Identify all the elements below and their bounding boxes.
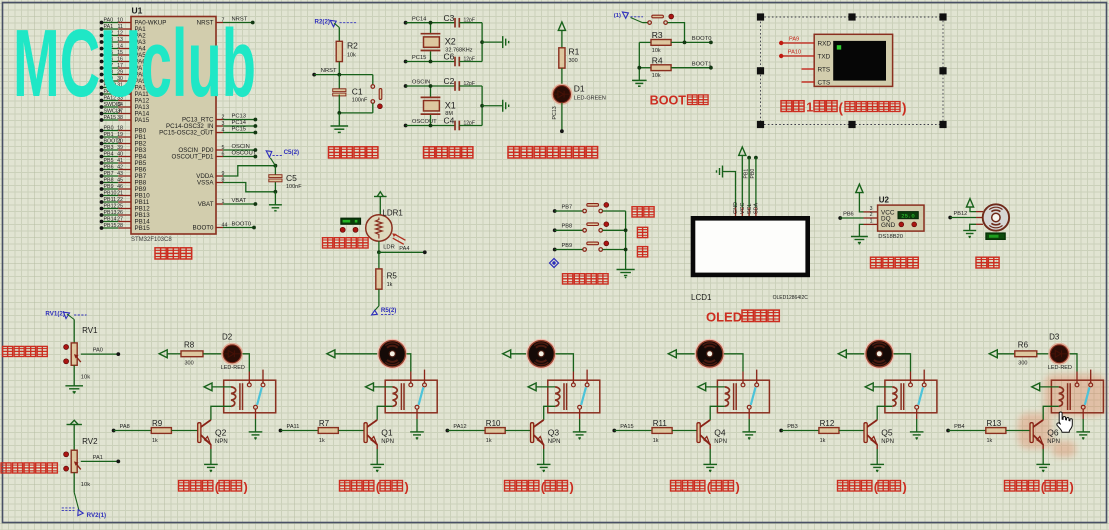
lcd LCD1 OLED12864I2C [735, 208, 737, 217]
svg-text:LDR1: LDR1 [382, 209, 403, 218]
svg-text:R3: R3 [652, 30, 663, 40]
svg-text:R13: R13 [987, 419, 1002, 428]
svg-text:U2: U2 [879, 195, 890, 204]
svg-text:PB13: PB13 [104, 210, 117, 216]
label 舵机 [976, 257, 999, 268]
svg-text:PB7: PB7 [104, 171, 114, 177]
svg-text:PB10: PB10 [104, 190, 117, 196]
servo display [986, 233, 1005, 239]
label 加 [637, 227, 647, 237]
wire button bus [625, 211, 627, 270]
wire arrow to motor Q3 [511, 353, 527, 355]
wire RV1 wiper to PA0 [81, 353, 119, 355]
node PA15 [612, 429, 616, 433]
svg-text:SCL: SCL [747, 204, 753, 215]
wire PA12 to R10 [447, 430, 485, 432]
svg-text:41: 41 [117, 158, 123, 164]
svg-text:VSSA: VSSA [197, 180, 214, 187]
svg-text:25: 25 [117, 203, 123, 209]
wire right pin OSCOUT_PD1 [216, 156, 223, 158]
wire coil bottom to collector [211, 406, 231, 420]
svg-text:R11: R11 [653, 419, 668, 428]
svg-text:OSCIN: OSCIN [232, 144, 250, 150]
wire R2 to NRST node [338, 62, 340, 75]
wire PB12 to servo [950, 217, 976, 219]
capacitor C4 [455, 121, 459, 131]
svg-text:PB15: PB15 [135, 225, 151, 232]
svg-text:): ) [244, 480, 248, 495]
ground relay contact [916, 419, 918, 432]
svg-text:(1): (1) [614, 13, 621, 19]
svg-text:10k: 10k [81, 375, 90, 381]
label 浑浊度调节 [1, 463, 57, 473]
svg-text:R5: R5 [387, 272, 398, 281]
wire C1 bottom [339, 112, 373, 114]
svg-text:300: 300 [185, 361, 194, 367]
ground crystal [482, 105, 503, 107]
wire PA8 to R9 [114, 430, 152, 432]
probe label C5(2) [266, 151, 272, 157]
wire RV2 bottom [73, 473, 75, 493]
label 继电器(充氧) [838, 481, 872, 492]
ground Q5 emitter [876, 444, 878, 449]
svg-text:NRST: NRST [321, 68, 337, 74]
svg-text:PB12: PB12 [104, 203, 117, 209]
ds18b20 display [898, 212, 918, 219]
svg-text:): ) [902, 101, 907, 116]
ground Q1 emitter [376, 444, 378, 449]
node PB9 [553, 248, 557, 252]
svg-text:LCD1: LCD1 [691, 293, 712, 302]
label 复位电路 [329, 147, 378, 158]
svg-text:3: 3 [870, 206, 873, 212]
svg-text:PA15: PA15 [135, 117, 150, 124]
power arrow U2 [856, 184, 863, 192]
svg-text:PB6: PB6 [104, 164, 114, 170]
svg-text:10k: 10k [652, 48, 661, 54]
wire left pin PB11 [102, 201, 119, 203]
svg-text:21: 21 [117, 190, 123, 196]
power arrow relay coil [1032, 383, 1040, 391]
svg-text:8M: 8M [445, 111, 453, 117]
svg-text:NPN: NPN [215, 439, 228, 445]
ldr LDR1 [379, 197, 381, 216]
resistor R5 [378, 252, 380, 269]
wire D1 to PC13 [561, 103, 563, 131]
selection highlight relay Q6 [1018, 374, 1106, 457]
power bar LDR [374, 192, 387, 197]
potentiometer RV1 [71, 343, 77, 365]
wire left pin PB0 [102, 130, 119, 132]
svg-text:PB1: PB1 [104, 132, 114, 138]
wire left pin PA12 [102, 100, 119, 102]
svg-text:10k: 10k [652, 73, 661, 79]
ground crystal [482, 41, 503, 43]
svg-text:1k: 1k [319, 438, 325, 444]
svg-text:C5: C5 [286, 173, 297, 183]
svg-text:C5(2): C5(2) [284, 149, 299, 156]
svg-text:VBAT: VBAT [232, 198, 247, 204]
wire OLED SDA [754, 156, 758, 160]
wire motor to relay [555, 354, 573, 372]
wire R6 to D3 [1037, 353, 1050, 355]
svg-text:Q3: Q3 [548, 428, 560, 438]
wire right pin PC14-OSC32_IN [216, 125, 223, 127]
ground relay contact [579, 419, 581, 432]
node PA8 [112, 429, 116, 433]
svg-text:PB5: PB5 [104, 158, 114, 164]
wire VDDA to C5 [223, 166, 275, 176]
svg-text:PB4: PB4 [104, 151, 114, 157]
svg-text:RV1(2): RV1(2) [45, 311, 65, 318]
label 主芯片 [155, 248, 192, 259]
wire right pin NRST [216, 22, 223, 24]
wire OSCOUT row [406, 125, 455, 127]
transistor Q2 NPN [198, 423, 201, 443]
wire right pin PC15-OSC32_OUT [216, 132, 223, 134]
svg-text:PA8: PA8 [120, 424, 130, 430]
wire OSCIN row [406, 85, 455, 87]
power arrow servo [966, 199, 973, 207]
node PB7 [553, 209, 557, 213]
svg-text:100nF: 100nF [286, 184, 302, 190]
svg-text:PA1: PA1 [93, 455, 103, 461]
wire PB4 to R13 [948, 430, 986, 432]
svg-text:DS18B20: DS18B20 [878, 234, 903, 240]
wire left pin PA3 [102, 41, 119, 43]
svg-text:PA10: PA10 [788, 50, 801, 56]
mouse cursor hand [1057, 412, 1072, 432]
label 独立按键 [563, 274, 609, 284]
probe label R5(2) [378, 289, 380, 306]
svg-text:RTS: RTS [818, 66, 831, 73]
svg-text:PB9: PB9 [562, 243, 573, 249]
node PA12 [446, 429, 450, 433]
relay Q3 [548, 380, 600, 413]
svg-text:GND: GND [881, 222, 896, 229]
svg-text:46: 46 [117, 184, 123, 190]
ldr value display [341, 218, 361, 224]
label 继电器(制冷) [340, 481, 374, 492]
wire R10 to Q3 base [505, 430, 530, 432]
svg-text:1: 1 [806, 101, 813, 115]
svg-text:PA4: PA4 [399, 246, 409, 252]
wire right pin VBAT [216, 203, 223, 205]
ground Q3 emitter [543, 444, 545, 449]
label 继电器(补光) [1005, 481, 1039, 492]
svg-text:CTS: CTS [818, 79, 831, 86]
op-amp U1 [131, 17, 216, 235]
label 光照调节 [323, 238, 369, 248]
wire OLED GND [723, 172, 736, 208]
wire left pin PA7 [102, 67, 119, 69]
wire right pin VSSA [216, 182, 223, 184]
svg-text:BOOT1: BOOT1 [692, 61, 712, 67]
svg-text:RV2(1): RV2(1) [87, 512, 107, 519]
node BOOT0 [683, 41, 687, 45]
selection box serial window [761, 17, 944, 125]
svg-text:PC15-OSC32_OUT: PC15-OSC32_OUT [159, 130, 214, 137]
svg-text:1k: 1k [152, 438, 158, 444]
label 测温模块 [871, 257, 919, 268]
svg-text:RXD: RXD [818, 40, 832, 47]
power arrow relay coil [865, 383, 873, 391]
ground Q2 emitter [210, 444, 212, 449]
svg-text:D2: D2 [222, 332, 233, 341]
led D3 LED-RED [1049, 344, 1069, 364]
svg-text:X1: X1 [445, 100, 456, 110]
svg-text:2: 2 [870, 212, 873, 218]
wire BOOT button to BOOT0 [667, 23, 684, 43]
svg-text:C1: C1 [352, 87, 363, 97]
crystal X1 [430, 86, 432, 97]
node PC13 bottom [560, 129, 564, 133]
svg-text:PC14: PC14 [412, 16, 427, 22]
svg-text:LED-GREEN: LED-GREEN [574, 96, 606, 102]
svg-text:Q5: Q5 [881, 428, 893, 438]
resistor R2 [338, 28, 340, 42]
wire motor to relay [894, 354, 911, 372]
svg-text:PA9: PA9 [789, 37, 799, 43]
temperature sensor U2 DS18B20 [864, 211, 878, 213]
wire left pin PB3 [102, 149, 119, 151]
led D2 LED-RED [222, 344, 242, 364]
svg-text:TXD: TXD [818, 53, 831, 60]
capacitor C2 [455, 81, 459, 91]
svg-text:26: 26 [117, 210, 123, 216]
svg-text:): ) [570, 480, 574, 495]
svg-text:28: 28 [117, 223, 123, 229]
wire PB3 to R12 [781, 430, 819, 432]
wire right pin OSCIN_PD0 [216, 149, 223, 151]
svg-text:MCUclub: MCUclub [13, 10, 256, 117]
svg-text:D1: D1 [574, 84, 585, 94]
push-button reset [372, 75, 374, 85]
svg-text:100nF: 100nF [352, 98, 368, 104]
wire left pin PB4 [102, 156, 119, 158]
power arrow Q5 top [838, 350, 846, 358]
label 减 [637, 247, 647, 257]
resistor R6 [1015, 351, 1037, 357]
relay Q1 [385, 380, 437, 413]
label 串口1窗口（模拟手机端） [781, 101, 804, 112]
potentiometer RV2 [71, 450, 77, 472]
transistor Q6 NPN [1030, 423, 1033, 443]
svg-text:20: 20 [117, 138, 123, 144]
wire arrow to motor Q5 [846, 353, 865, 355]
wire left pin PB7 [102, 175, 119, 177]
svg-text:LED-RED: LED-RED [1048, 365, 1072, 371]
transistor Q4 NPN [697, 423, 700, 443]
wire D3 to relay [1070, 354, 1078, 372]
power arrow relay coil [204, 383, 212, 391]
ground U2 [859, 224, 863, 236]
wire left pin PB1 [102, 136, 119, 138]
svg-text:300: 300 [569, 58, 578, 64]
wire left pin PB12 [102, 208, 119, 210]
svg-text:PB8: PB8 [562, 224, 573, 230]
svg-text:1k: 1k [387, 282, 393, 288]
resistor R8 [181, 351, 203, 357]
ground RV1 [73, 365, 75, 386]
svg-text:BOOT: BOOT [650, 94, 687, 108]
wire left pin SWDIO [102, 106, 119, 108]
wire arrow to motor Q1 [335, 353, 378, 355]
node PB8 [553, 228, 557, 232]
wire coil bottom to collector [710, 406, 725, 420]
node OSCOUT [404, 124, 408, 128]
svg-text:1k: 1k [486, 438, 492, 444]
svg-text:C4: C4 [444, 116, 455, 126]
svg-text:R10: R10 [486, 419, 501, 428]
wire VSSA to C5 [223, 183, 275, 192]
wire crystal right vertical [481, 23, 483, 62]
capacitor C1 [338, 75, 340, 91]
svg-text:PB3: PB3 [787, 424, 798, 430]
wire left pin PB9 [102, 188, 119, 190]
svg-text:OLED12864I2C: OLED12864I2C [773, 295, 809, 301]
svg-text:1: 1 [870, 219, 873, 225]
svg-text:R2(2): R2(2) [315, 18, 330, 25]
wire left pin PA1 [102, 28, 119, 30]
wire arrow to R6 [997, 353, 1015, 355]
wire right pin PC13_RTC [216, 119, 223, 121]
wire left pin PB13 [102, 214, 119, 216]
svg-text:LDR: LDR [383, 244, 395, 250]
virtual terminal [814, 34, 892, 86]
capacitor C6 [455, 57, 459, 67]
ground Q4 emitter [709, 444, 711, 449]
power arrow D1 [558, 22, 565, 30]
motor Q5 load [865, 340, 893, 368]
svg-text:NPN: NPN [1047, 439, 1060, 445]
svg-text:PC14: PC14 [232, 120, 247, 126]
svg-text:PB0: PB0 [750, 169, 756, 179]
wire D2 to relay [242, 354, 249, 372]
wire right pin BOOT0 [216, 227, 223, 229]
wire left pin PB15 [102, 227, 119, 229]
svg-text:27: 27 [117, 216, 123, 222]
svg-text:PA11: PA11 [287, 424, 300, 430]
power arrow OLED VCC [739, 147, 746, 155]
relay Q5 [885, 380, 937, 413]
wire coil bottom to collector [877, 406, 892, 420]
wire R8 to D2 [203, 353, 222, 355]
node PA0 [116, 352, 120, 356]
svg-text:OSCOUT: OSCOUT [232, 151, 257, 157]
svg-text:10k: 10k [81, 482, 90, 488]
svg-text:): ) [736, 480, 740, 495]
node PC14 [404, 21, 408, 25]
wire OLED SCL [747, 156, 751, 160]
capacitor C3 [455, 18, 459, 28]
wire LDR to PA4 [378, 241, 380, 252]
svg-text:BOOT0: BOOT0 [193, 225, 215, 232]
ground relay contact [255, 419, 257, 432]
push-button PB8 [555, 229, 583, 231]
ground buttons [617, 270, 635, 276]
wire left pin PB5 [102, 162, 119, 164]
wire R13 to Q6 base [1006, 430, 1030, 432]
svg-text:NPN: NPN [548, 439, 561, 445]
svg-text:PB6: PB6 [843, 212, 854, 218]
resistor R10 [485, 428, 505, 434]
capacitor C5 [274, 166, 276, 176]
svg-text:BOOT0: BOOT0 [232, 222, 252, 228]
node PB6 [838, 216, 842, 220]
resistor R4 [639, 67, 651, 69]
transistor Q3 NPN [531, 423, 534, 443]
node PA1 [116, 460, 120, 464]
node VDDA/C5 junction [274, 164, 278, 168]
svg-text:PB11: PB11 [104, 197, 117, 203]
motor Q4 load [696, 340, 724, 368]
label 继电器(抽水) [671, 481, 705, 492]
svg-text:22: 22 [117, 197, 123, 203]
pin RTS stub [802, 68, 815, 70]
power arrow Q3 top [503, 350, 511, 358]
motor Q3 load [527, 340, 555, 368]
wire R9 to Q2 base [171, 430, 197, 432]
crystal X2 [430, 23, 432, 33]
power arrow Q1 top [327, 350, 335, 358]
wire right pin VDDA [216, 175, 223, 177]
svg-text:Q1: Q1 [381, 428, 393, 438]
svg-text:): ) [405, 480, 409, 495]
transistor Q5 NPN [864, 423, 867, 443]
svg-text:PC15: PC15 [232, 127, 247, 133]
label 继电器(加热) [179, 481, 213, 492]
svg-text:10k: 10k [347, 53, 356, 59]
svg-text:GND: GND [733, 202, 739, 214]
wire left pin PA10 [102, 87, 119, 89]
wire R11 to Q4 base [672, 430, 697, 432]
svg-text:32.768KHz: 32.768KHz [445, 47, 472, 53]
svg-text:PB1: PB1 [743, 169, 749, 179]
wire left pin PA9 [102, 80, 119, 82]
svg-text:): ) [903, 480, 907, 495]
svg-text:45: 45 [117, 177, 123, 183]
wire RV1 top [73, 320, 75, 343]
wire RV2 wiper to PA1 [81, 460, 119, 462]
led D1 LED-GREEN [561, 68, 563, 85]
wire OLED VCC [741, 155, 743, 207]
svg-text:LED-RED: LED-RED [221, 365, 245, 371]
ds18b20 buttons [899, 222, 904, 227]
svg-text:VBAT: VBAT [198, 201, 214, 208]
resistor R3 [639, 41, 651, 43]
label 晶振电路 [424, 147, 473, 158]
wire left pin PA5 [102, 54, 119, 56]
svg-text:NPN: NPN [381, 439, 394, 445]
label 水质调节 [3, 346, 48, 356]
svg-text:1k: 1k [987, 438, 993, 444]
resistor R11 [652, 428, 672, 434]
power arrow Q2 top [159, 350, 167, 358]
resistor R7 [318, 428, 338, 434]
svg-text:OLED: OLED [706, 310, 742, 325]
svg-text:STM32F103C8: STM32F103C8 [131, 237, 172, 243]
wire left pin PB10 [102, 195, 119, 197]
wire RV2 top [73, 425, 75, 451]
wire R3/R4 left vertical [638, 42, 640, 80]
svg-text:42: 42 [117, 164, 123, 170]
svg-text:PA0: PA0 [93, 348, 103, 354]
wire PB6 to DQ [840, 217, 863, 219]
wire R7 to Q1 base [338, 430, 364, 432]
svg-text:(: ( [839, 101, 844, 116]
relay Q6 [1051, 380, 1103, 413]
